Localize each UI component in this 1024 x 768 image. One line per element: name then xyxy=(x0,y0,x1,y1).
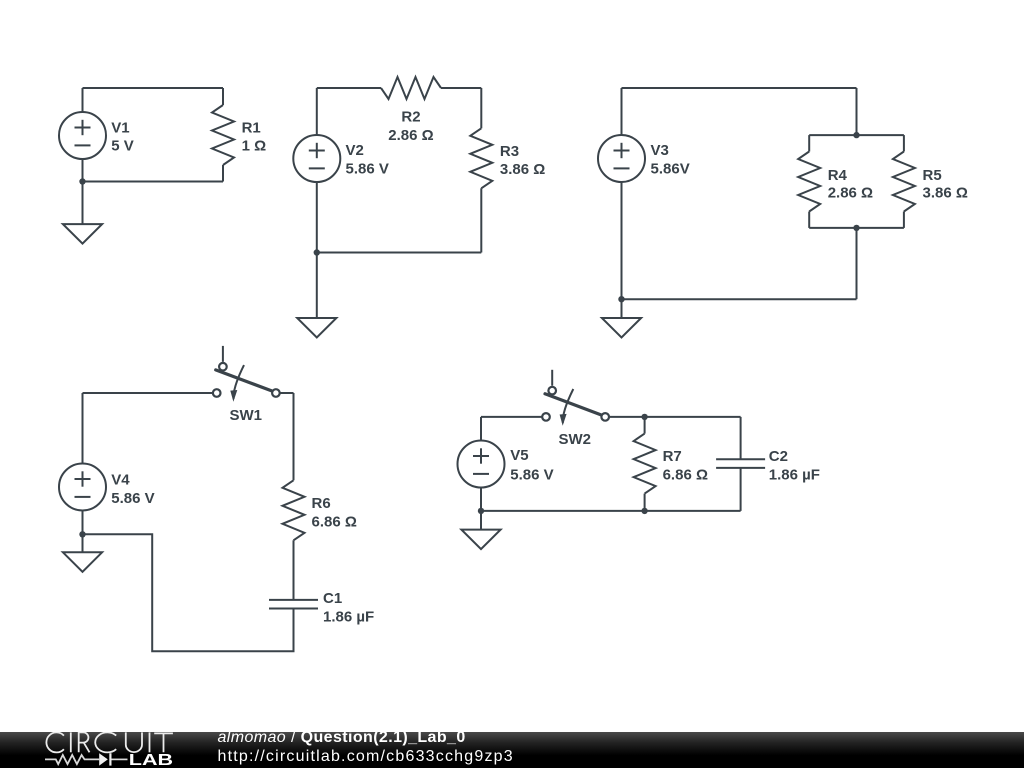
resistor R2 xyxy=(381,77,441,99)
wire R5 bottom lead xyxy=(903,212,905,228)
wire V5 bottom lead xyxy=(480,487,482,511)
wire R4 bottom lead xyxy=(808,212,810,228)
wire R7 top lead xyxy=(644,417,646,434)
wire top rail circuit 1 xyxy=(83,87,224,89)
wire R3 bottom lead xyxy=(480,188,482,252)
svg-text:C1: C1 xyxy=(323,590,342,607)
footer title line xyxy=(218,730,466,746)
capacitor C2 xyxy=(716,459,765,468)
svg-text:SW2: SW2 xyxy=(558,431,591,448)
switch SW2 xyxy=(542,370,609,426)
svg-text:5.86V: 5.86V xyxy=(651,160,690,177)
svg-text:R2: R2 xyxy=(401,108,420,125)
wire V5 top lead xyxy=(480,417,482,442)
svg-text:V5: V5 xyxy=(510,447,528,464)
voltage source V1 xyxy=(59,112,106,159)
wire top rail circuit 5 xyxy=(481,416,542,418)
wire parallel top bar xyxy=(809,134,904,136)
svg-text:R1: R1 xyxy=(242,120,261,137)
footer logo mini resistor xyxy=(45,755,99,764)
svg-text:R3: R3 xyxy=(500,143,519,160)
svg-text:5.86 V: 5.86 V xyxy=(111,490,154,507)
svg-text:2.86 Ω: 2.86 Ω xyxy=(828,185,873,202)
junction node circuit 3 xyxy=(618,296,624,302)
voltage source V2 xyxy=(293,135,340,182)
wire drop from parallel pair xyxy=(856,228,858,299)
ground circuit 5 xyxy=(461,511,500,549)
voltage source V5 xyxy=(458,441,505,488)
wire bottom rail circuit 5 xyxy=(481,510,741,512)
wire top rail circuit 4 xyxy=(83,392,213,394)
wire top-left segment circuit 2 xyxy=(317,87,381,89)
wire V3 top lead xyxy=(621,88,623,136)
wire R4 top lead xyxy=(808,135,810,151)
junction node R7 bottom xyxy=(641,508,647,514)
svg-text:1.86 µF: 1.86 µF xyxy=(323,608,374,625)
resistor R6 xyxy=(283,480,305,540)
svg-text:R5: R5 xyxy=(923,167,942,184)
wire bottom rail circuit 1 xyxy=(83,181,224,183)
junction node circuit 4 xyxy=(79,531,85,537)
ground circuit 2 xyxy=(297,253,336,338)
footer url line xyxy=(218,749,514,765)
junction node R7 top xyxy=(641,414,647,420)
footer bar xyxy=(0,732,1024,768)
svg-text:SW1: SW1 xyxy=(229,407,262,424)
svg-text:V3: V3 xyxy=(651,142,669,159)
svg-text:V2: V2 xyxy=(346,142,364,159)
wire top-right segment circuit 2 xyxy=(441,87,481,89)
svg-text:R4: R4 xyxy=(828,167,848,184)
wire right drop to parallel pair xyxy=(856,88,858,135)
wire R7 bottom lead xyxy=(644,494,646,511)
svg-text:LAB: LAB xyxy=(129,752,173,768)
wire V3 bottom lead xyxy=(621,181,623,299)
wire R1 top lead xyxy=(222,88,224,105)
capacitor C1 xyxy=(269,600,318,609)
resistor R4 xyxy=(798,152,820,212)
switch SW1 xyxy=(213,346,280,402)
wire R5 top lead xyxy=(903,135,905,151)
wire R6 to C1 xyxy=(293,540,295,600)
svg-text:1.86 µF: 1.86 µF xyxy=(769,467,820,484)
svg-text:3.86 Ω: 3.86 Ω xyxy=(500,161,545,178)
wire C1 bottom path xyxy=(83,534,294,651)
footer logo mini diode xyxy=(99,753,127,765)
wire C2 bottom lead xyxy=(740,468,742,511)
resistor R3 xyxy=(470,128,492,188)
voltage source V3 xyxy=(598,135,645,182)
wire bottom rail circuit 2 xyxy=(317,252,482,254)
svg-text:1 Ω: 1 Ω xyxy=(242,138,267,155)
junction node parallel top xyxy=(853,132,859,138)
wire V2 bottom lead xyxy=(316,181,318,253)
wire R1 bottom lead xyxy=(222,165,224,182)
ground circuit 4 xyxy=(63,534,102,572)
svg-text:2.86 Ω: 2.86 Ω xyxy=(388,127,433,144)
resistor R7 xyxy=(634,434,656,494)
svg-text:V4: V4 xyxy=(111,472,130,489)
wire R6 top lead xyxy=(293,393,295,480)
svg-text:6.86 Ω: 6.86 Ω xyxy=(312,513,357,530)
wire V4 top lead xyxy=(82,393,84,465)
wire C2 top lead xyxy=(740,417,742,460)
wire R3 top lead xyxy=(480,88,482,128)
svg-text:V1: V1 xyxy=(111,120,129,137)
svg-text:R6: R6 xyxy=(312,495,331,512)
resistor R5 xyxy=(893,152,915,212)
wire SW1 to R6 branch xyxy=(280,392,293,394)
junction node circuit 2 xyxy=(314,249,320,255)
svg-text:5 V: 5 V xyxy=(111,138,134,155)
resistor R1 xyxy=(212,105,234,165)
junction node circuit 1 xyxy=(79,178,85,184)
junction node parallel bottom xyxy=(853,225,859,231)
wire bottom rail circuit 3 xyxy=(622,298,857,300)
wire V1 top lead xyxy=(82,88,84,113)
wire SW2 to C2 branch xyxy=(609,416,741,418)
svg-text:C2: C2 xyxy=(769,448,788,465)
svg-text:3.86 Ω: 3.86 Ω xyxy=(923,185,968,202)
wire top rail circuit 3 xyxy=(622,87,857,89)
footer logo CIRCUIT xyxy=(46,732,173,752)
junction node V5 ground xyxy=(478,508,484,514)
svg-text:6.86 Ω: 6.86 Ω xyxy=(663,467,708,484)
wire V1 bottom lead xyxy=(82,158,84,182)
wire V2 top lead xyxy=(316,88,318,136)
svg-text:5.86 V: 5.86 V xyxy=(510,467,553,484)
ground circuit 3 xyxy=(602,299,641,337)
wire V4 bottom lead xyxy=(82,510,84,535)
wire parallel bottom bar xyxy=(809,227,904,229)
voltage source V4 xyxy=(59,464,106,511)
svg-text:5.86 V: 5.86 V xyxy=(346,160,389,177)
ground circuit 1 xyxy=(63,182,102,244)
svg-text:R7: R7 xyxy=(663,448,682,465)
